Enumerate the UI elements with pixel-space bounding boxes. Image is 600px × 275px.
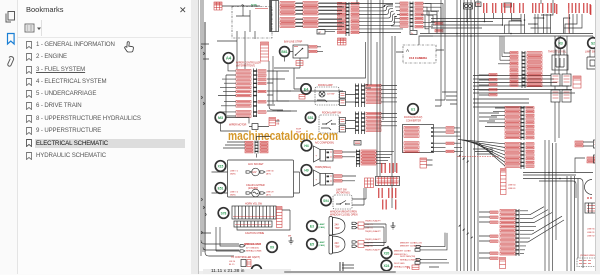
bookmarks panel bbox=[18, 0, 191, 274]
wire: RM stubs bbox=[427, 160, 433, 165]
wire: S78 bottom runs bbox=[237, 210, 290, 230]
document area bbox=[199, 0, 600, 274]
switch S78 body bbox=[232, 206, 276, 219]
svg-text:E5: E5 bbox=[310, 243, 314, 247]
controller plug block bbox=[241, 260, 251, 267]
label: wire tag v5 bbox=[547, 3, 548, 13]
connector strip RB right stubs bbox=[526, 107, 534, 139]
svg-text:LINE 7.1: LINE 7.1 bbox=[230, 170, 239, 172]
svg-text:(W/R): (W/R) bbox=[230, 194, 236, 196]
svg-text:TO CONTROLLER C(EXT): TO CONTROLLER C(EXT) bbox=[231, 256, 260, 259]
wire: bundle v4 bbox=[467, 0, 469, 271]
paperclip icon bbox=[8, 57, 14, 67]
wire: extra right verticals bbox=[545, 140, 578, 271]
svg-text:BL 15: BL 15 bbox=[229, 264, 235, 266]
junction dot MC bbox=[387, 246, 389, 248]
wire: top right elbows bbox=[505, 18, 570, 34]
connector E3 bbox=[352, 222, 364, 229]
junction dots top right bbox=[520, 20, 522, 22]
label: H9 right bbox=[334, 175, 342, 182]
connector E5 bbox=[352, 241, 364, 248]
label: H4 right bbox=[334, 151, 342, 158]
connector A4 body rails bbox=[253, 69, 257, 118]
fuse block top bbox=[354, 141, 361, 146]
svg-text:TM(RD) R-ADPT: TM(RD) R-ADPT bbox=[365, 238, 381, 241]
connector strip BR rails bbox=[516, 209, 520, 256]
svg-text:X15: X15 bbox=[218, 165, 224, 169]
svg-text:S51: S51 bbox=[307, 116, 313, 120]
label: wire tag v2 bbox=[523, 3, 524, 13]
right scrollbar bbox=[595, 0, 600, 274]
svg-text:ACC SOCKET: ACC SOCKET bbox=[248, 163, 264, 166]
node U1 bbox=[408, 104, 419, 115]
label: wire tag v3 bbox=[532, 3, 533, 13]
connector strip above X15 bbox=[255, 141, 259, 154]
wire: bundle v5 bbox=[470, 0, 472, 271]
node R3 bbox=[555, 38, 566, 49]
connector strip RB2 left labels bbox=[505, 143, 520, 168]
hand cursor bbox=[122, 41, 134, 53]
wire: mid verticals down bbox=[365, 0, 371, 88]
strip HS right labels bbox=[361, 150, 376, 165]
wire: horizontals right mid bbox=[473, 76, 575, 94]
ground E3 bbox=[391, 222, 396, 229]
wire: horizontals right lower bbox=[523, 173, 593, 176]
svg-text:B61: B61 bbox=[281, 50, 287, 54]
label: S20 underline bbox=[255, 7, 268, 9]
wire: red power line top right bbox=[567, 8, 570, 33]
pages icon bbox=[6, 12, 15, 23]
wire: branch curves into bundle bbox=[459, 155, 473, 239]
connector X40 left labels bbox=[400, 2, 408, 27]
connector RC1 bbox=[551, 74, 560, 86]
wire: upper-right horizontals bbox=[431, 19, 521, 29]
relay RC3 (red) bbox=[573, 76, 581, 88]
wire: S2 drops bbox=[590, 36, 595, 57]
connector X40 rails bbox=[410, 2, 414, 31]
svg-text:C13 CAMERA: C13 CAMERA bbox=[409, 56, 427, 60]
wire: R3 drops bbox=[556, 36, 564, 55]
relay K9 (red) bbox=[269, 118, 276, 126]
wire: left-mid long runs bbox=[277, 91, 343, 111]
motor M3 circuit bbox=[249, 124, 262, 130]
label: red tag pairs right bbox=[483, 3, 514, 13]
svg-text:12V: 12V bbox=[252, 171, 257, 174]
svg-text:(INTERMITTENT): (INTERMITTENT) bbox=[236, 65, 255, 68]
wire: mid verticals group2 bbox=[377, 0, 395, 208]
pin box 17 bbox=[317, 30, 325, 35]
svg-text:LINE 60: LINE 60 bbox=[508, 184, 516, 186]
wire: tag drops bbox=[485, 13, 512, 25]
wire: top-left group link bbox=[295, 3, 303, 26]
plug pair X9 bbox=[240, 245, 245, 253]
horn H9 symbol bbox=[314, 170, 334, 186]
wire: strip S6 runs right bbox=[381, 114, 397, 126]
connector FR1 bbox=[585, 203, 597, 213]
node S94 bbox=[321, 195, 331, 205]
wire: A4 right runs bbox=[267, 71, 291, 111]
scrollbar track bbox=[199, 271, 596, 275]
wire: C8 drop bbox=[467, 9, 470, 22]
limit switch S2 body bbox=[587, 57, 597, 69]
horn H4 symbol bbox=[314, 146, 334, 162]
svg-text:ROOM LAMP SW: ROOM LAMP SW bbox=[322, 111, 342, 114]
connector right edge RE2 bbox=[594, 155, 599, 163]
svg-text:B/W LINE STRIP: B/W LINE STRIP bbox=[284, 40, 303, 43]
bookmark icon active bbox=[8, 34, 15, 45]
wire: diagonal merge fan bbox=[458, 140, 505, 167]
page size chip bbox=[203, 269, 291, 274]
module A C13 camera (dash-dot box) bbox=[403, 45, 436, 63]
svg-text:A/C COMP(DISK): A/C COMP(DISK) bbox=[315, 142, 334, 145]
svg-text:U1: U1 bbox=[411, 108, 416, 112]
wire: second group to mid strip bbox=[318, 3, 346, 26]
label: extra vertical tags bbox=[535, 3, 588, 13]
wire: bundle v9 bbox=[440, 0, 442, 36]
svg-text:70W: 70W bbox=[335, 227, 341, 230]
svg-text:TM(RD) R-ADPT: TM(RD) R-ADPT bbox=[365, 248, 381, 251]
connector strip RB2 rails bbox=[521, 142, 525, 169]
connector J1 (small red grid) bbox=[214, 2, 222, 10]
wire: X40 diagonal steps bbox=[421, 3, 437, 33]
svg-text:(ROTATING): (ROTATING) bbox=[336, 192, 350, 195]
mid strip left labels bbox=[338, 2, 346, 33]
connector tall red J5 bbox=[261, 42, 269, 61]
wire: E5 runs bbox=[364, 224, 386, 246]
U1 wire labels bbox=[446, 127, 454, 153]
wire: motor loop bbox=[221, 118, 280, 132]
node X15 bbox=[215, 161, 226, 172]
connector S50-a bbox=[340, 118, 346, 125]
rail icons bbox=[0, 0, 18, 80]
wire: RA left feeds bbox=[498, 36, 510, 64]
node X24 bbox=[381, 260, 392, 271]
strip X15a labels bbox=[260, 141, 268, 153]
connector strip RB2 right stubs bbox=[526, 143, 534, 168]
wire: camera drop bbox=[396, 36, 444, 52]
switch B61 assembly bbox=[293, 45, 308, 58]
connector S78 right (tall red) bbox=[277, 207, 283, 228]
label: wire tag v11 bbox=[579, 3, 580, 13]
wire: left bus line 1 bbox=[200, 0, 202, 256]
lighter symbol bbox=[246, 189, 265, 197]
connector E4-b bbox=[340, 99, 346, 106]
svg-text:Fx: Fx bbox=[411, 33, 413, 35]
svg-text:24V/2 GND: 24V/2 GND bbox=[394, 263, 405, 265]
wire: A4 left feeds bbox=[218, 64, 236, 116]
wire: mid strip curved fan bbox=[359, 5, 403, 33]
svg-text:LINE 7.2: LINE 7.2 bbox=[230, 191, 239, 193]
svg-text:E3: E3 bbox=[310, 225, 314, 229]
svg-text:HORN(SHELL): HORN(SHELL) bbox=[315, 166, 331, 169]
node X20 bbox=[381, 248, 392, 259]
svg-text:H4: H4 bbox=[304, 144, 308, 148]
label: wire tag v1 bbox=[519, 3, 520, 13]
svg-text:M3: M3 bbox=[218, 116, 223, 120]
wire: U1 pin runs bbox=[434, 128, 446, 151]
power window box (dashed) bbox=[577, 258, 597, 267]
svg-text:S78: S78 bbox=[221, 212, 227, 216]
svg-text:LAMP: LAMP bbox=[319, 241, 326, 244]
wire: top-left runs bbox=[222, 5, 260, 32]
connector tall red RT (bottom) bbox=[501, 169, 507, 195]
connector C8 top right bbox=[464, 3, 473, 9]
wire: bus line A bbox=[420, 33, 593, 35]
wire: pin box link bbox=[319, 32, 335, 34]
wire: socket feeds bbox=[212, 172, 300, 193]
label: tag pair far right bbox=[556, 4, 591, 14]
wire: lamp to strips bbox=[294, 68, 356, 102]
node R4 bbox=[588, 38, 599, 49]
svg-text:(CAB): (CAB) bbox=[319, 244, 325, 247]
wire: top right verticals bbox=[521, 14, 573, 34]
lamp E3 bulb bbox=[329, 217, 345, 236]
svg-text:TM(RD) R-ADPT: TM(RD) R-ADPT bbox=[365, 219, 381, 222]
wire: corner top right bbox=[541, 0, 553, 15]
label: TA/BK red rows bbox=[435, 22, 443, 32]
connector X40 tail bbox=[410, 31, 417, 35]
enclosure boundary line bbox=[296, 42, 366, 78]
horizontal scrollbar thumb bbox=[284, 271, 396, 273]
svg-text:12V 8W: 12V 8W bbox=[327, 94, 334, 96]
wire: bars below E5 bbox=[340, 262, 343, 271]
svg-text:LINE 61: LINE 61 bbox=[508, 188, 516, 190]
relay BM (red) bbox=[412, 265, 419, 270]
connector strip RA right stubs bbox=[527, 52, 542, 87]
mid strip right labels bbox=[351, 2, 359, 33]
label: right edge rows bbox=[575, 141, 595, 163]
svg-text:+: + bbox=[316, 155, 318, 158]
wire: bundle v2 bbox=[460, 0, 462, 271]
node H4 bbox=[301, 140, 312, 151]
wire: U1 runs join bundle bbox=[445, 128, 464, 151]
connector strip RA rails bbox=[522, 51, 526, 88]
node B61 bbox=[280, 47, 290, 57]
wire: bundle v7 bbox=[477, 0, 479, 271]
wire: strip S4 runs right bbox=[381, 86, 397, 102]
fuse strip FS (long grid) bbox=[376, 177, 400, 186]
wire: bundle left stubs bbox=[442, 92, 457, 104]
switch S94 (dashed box) bbox=[333, 195, 352, 209]
node E3 bbox=[307, 221, 318, 232]
svg-text:TM(RD) R-ADPT: TM(RD) R-ADPT bbox=[365, 230, 381, 233]
connector RC4 bbox=[551, 90, 560, 102]
wire: bottom stubs bbox=[342, 265, 439, 268]
wire: X40 left feeds bbox=[391, 3, 400, 26]
connector E4 aux (red small) bbox=[299, 95, 305, 100]
node A4 bbox=[223, 53, 234, 64]
svg-text:(B/Y): (B/Y) bbox=[266, 173, 271, 175]
lamp E5 bulb bbox=[329, 235, 345, 254]
plug MC1 bbox=[415, 245, 421, 251]
label: bundle right rows lower bbox=[490, 211, 498, 259]
svg-text:MEMORY CLEAR(+5V): MEMORY CLEAR(+5V) bbox=[400, 241, 422, 244]
left tool rail bbox=[0, 0, 18, 274]
label: tag m2 bbox=[385, 163, 386, 173]
wire: bundle v6 bbox=[474, 0, 476, 271]
wire: left bus line 2 bbox=[202, 0, 204, 252]
junction dots mesh bbox=[534, 23, 536, 25]
svg-text:CONVERTER: CONVERTER bbox=[406, 120, 421, 123]
wire: bundle v1 bbox=[456, 0, 458, 271]
node S50 bbox=[305, 112, 315, 122]
svg-text:IMMOBILIZER: IMMOBILIZER bbox=[244, 242, 261, 246]
svg-text:LIN 14: LIN 14 bbox=[229, 261, 236, 263]
node E51 bbox=[215, 183, 226, 194]
label: wire tag v12 bbox=[590, 5, 591, 15]
connector X2 (black body) bbox=[270, 1, 279, 32]
connector strip RB rails bbox=[521, 106, 525, 140]
junction dot bbox=[242, 5, 244, 7]
splitter bbox=[191, 0, 199, 274]
svg-text:86: 86 bbox=[277, 122, 280, 125]
connector B62 small bbox=[296, 61, 303, 66]
label: wire tag v8 bbox=[568, 3, 569, 13]
strip S6 right labels bbox=[366, 112, 381, 131]
svg-text:24V/2 GND(TM): 24V/2 GND(TM) bbox=[400, 256, 415, 258]
svg-text:H9: H9 bbox=[304, 169, 308, 173]
label: wire tag v4 bbox=[542, 3, 543, 13]
connector A4 right stubs bbox=[258, 70, 266, 113]
junction dots on bus bbox=[456, 33, 458, 35]
svg-text:(CAB): (CAB) bbox=[319, 226, 325, 229]
acc socket box bbox=[228, 160, 294, 197]
plug MC2 bbox=[415, 258, 421, 264]
junction dots bottom right bbox=[548, 172, 550, 174]
svg-text:MEMORY CLEAR: MEMORY CLEAR bbox=[394, 249, 411, 252]
svg-text:LAMP: LAMP bbox=[319, 223, 326, 226]
fuse F8 top right bbox=[504, 3, 512, 7]
node H9 bbox=[301, 165, 312, 176]
wire: bundle v3 bbox=[463, 0, 465, 271]
node E5 bbox=[307, 239, 318, 250]
label: wire tag v10 bbox=[575, 3, 576, 13]
connector strip RB left labels bbox=[505, 107, 520, 139]
connector S50-b bbox=[340, 126, 346, 133]
converter U1 box bbox=[403, 125, 434, 153]
node E4 bbox=[301, 84, 311, 94]
strip X15a left labels bbox=[245, 141, 253, 153]
wire: H9 to strip bbox=[342, 176, 356, 181]
relay BRC (red) bbox=[500, 258, 506, 269]
label: fuse strip tags bbox=[378, 188, 396, 210]
label: bundle right row tags bbox=[489, 74, 497, 96]
wire: strip B fan left bbox=[485, 108, 505, 127]
generator G circle bbox=[585, 180, 593, 195]
label: tag m3 bbox=[389, 163, 390, 173]
label: tag m4 bbox=[393, 163, 394, 173]
connector A4 rows (left labels) bbox=[236, 70, 251, 118]
connector strip S6 rails bbox=[361, 112, 365, 135]
svg-text:E51: E51 bbox=[218, 187, 224, 191]
ground MR bbox=[288, 235, 294, 244]
connector strip BR left labels bbox=[500, 210, 515, 256]
strip S4 right labels bbox=[366, 84, 381, 103]
svg-text:CAUTION CHIME: CAUTION CHIME bbox=[245, 232, 265, 235]
wire: bus line B bbox=[420, 35, 593, 37]
mid strip M rails bbox=[346, 2, 350, 36]
label: wire tag v6 bbox=[551, 3, 552, 13]
connector strip RA left labels bbox=[510, 52, 518, 87]
wire: left bus line 3 bbox=[204, 22, 206, 252]
wiper module boundary (dash-dot box) bbox=[232, 7, 272, 39]
connector strip S5 rails bbox=[355, 112, 359, 135]
svg-text:A: A bbox=[406, 48, 410, 53]
wire: MC runs to bundle bbox=[420, 233, 449, 263]
label: tag m1 bbox=[381, 163, 382, 173]
connector strip S4 rails bbox=[361, 84, 365, 108]
svg-text:HORN VOL SW: HORN VOL SW bbox=[245, 203, 263, 206]
wire: X40 right runs bbox=[423, 3, 443, 26]
svg-text:(W/R): (W/R) bbox=[230, 173, 236, 175]
wire: right edge stubs bbox=[575, 142, 593, 173]
connector S78 lower row bbox=[234, 221, 272, 227]
node M3 bbox=[215, 112, 226, 123]
svg-text:MR: MR bbox=[288, 235, 292, 237]
wire: strip HS runs bbox=[376, 151, 394, 163]
wire: E3 runs bbox=[364, 224, 386, 227]
relay RM (red small) bbox=[420, 158, 427, 168]
wire: X40 drops to bus bbox=[437, 3, 443, 33]
svg-text:SERIAL(COMM): SERIAL(COMM) bbox=[246, 250, 262, 253]
svg-text:LINE 76: LINE 76 bbox=[365, 246, 373, 248]
mid red labels row2 bbox=[303, 2, 318, 28]
socket 12V symbol bbox=[246, 168, 265, 176]
wire: bundle v8 bbox=[444, 0, 446, 40]
connector X40 right labels bbox=[415, 2, 423, 28]
node S79 bbox=[252, 265, 262, 275]
wire: switch to strips bbox=[346, 121, 356, 129]
svg-text:WIPER MOTOR: WIPER MOTOR bbox=[229, 123, 247, 126]
svg-text:A4: A4 bbox=[226, 56, 232, 61]
connector right edge RE bbox=[594, 140, 599, 148]
svg-text:S94: S94 bbox=[323, 199, 329, 203]
label: right edge streaks bbox=[595, 152, 596, 235]
wire: horizontals right mid lower bbox=[473, 99, 533, 107]
wire: U1 bundle links bbox=[435, 36, 445, 106]
wire: bundle right stubs bbox=[479, 75, 499, 121]
svg-text:LINE 30: LINE 30 bbox=[266, 170, 274, 172]
connector X2 red pin labels bbox=[280, 2, 295, 28]
svg-text:(B/Y): (B/Y) bbox=[266, 194, 271, 196]
svg-text:X20: X20 bbox=[384, 252, 390, 256]
svg-text:S20: S20 bbox=[251, 4, 257, 8]
svg-text:+: + bbox=[316, 179, 318, 182]
svg-text:LINE 29: LINE 29 bbox=[266, 191, 274, 193]
wire: red dashed run bbox=[457, 156, 499, 158]
wire: extra top right mesh bbox=[512, 14, 582, 34]
svg-text:(-): (-) bbox=[407, 266, 410, 270]
relay block FH (red) bbox=[365, 178, 374, 188]
wire: B61 drop bbox=[274, 47, 323, 68]
wire: strip X15a drop bbox=[223, 137, 271, 158]
potentiometer R3 bbox=[552, 55, 568, 70]
wire: column drops bbox=[555, 36, 567, 142]
wire: H4 to strip bbox=[342, 152, 356, 157]
node S78 bbox=[218, 208, 229, 219]
wire: BR fan diagonals bbox=[520, 207, 564, 254]
wire: immo feeds bbox=[216, 227, 240, 251]
wire: drops from module bbox=[217, 31, 255, 69]
wire: stub into page bbox=[201, 44, 239, 256]
connector E4-a bbox=[340, 92, 346, 99]
wire: right verticals bottom bbox=[549, 140, 575, 271]
node X9 bbox=[267, 242, 278, 253]
label: tag m5 bbox=[396, 163, 397, 173]
label: wire tag v7 bbox=[554, 3, 555, 13]
label: B61 stubs bbox=[309, 46, 317, 53]
wire: bundle lower right stubs bbox=[479, 212, 490, 258]
